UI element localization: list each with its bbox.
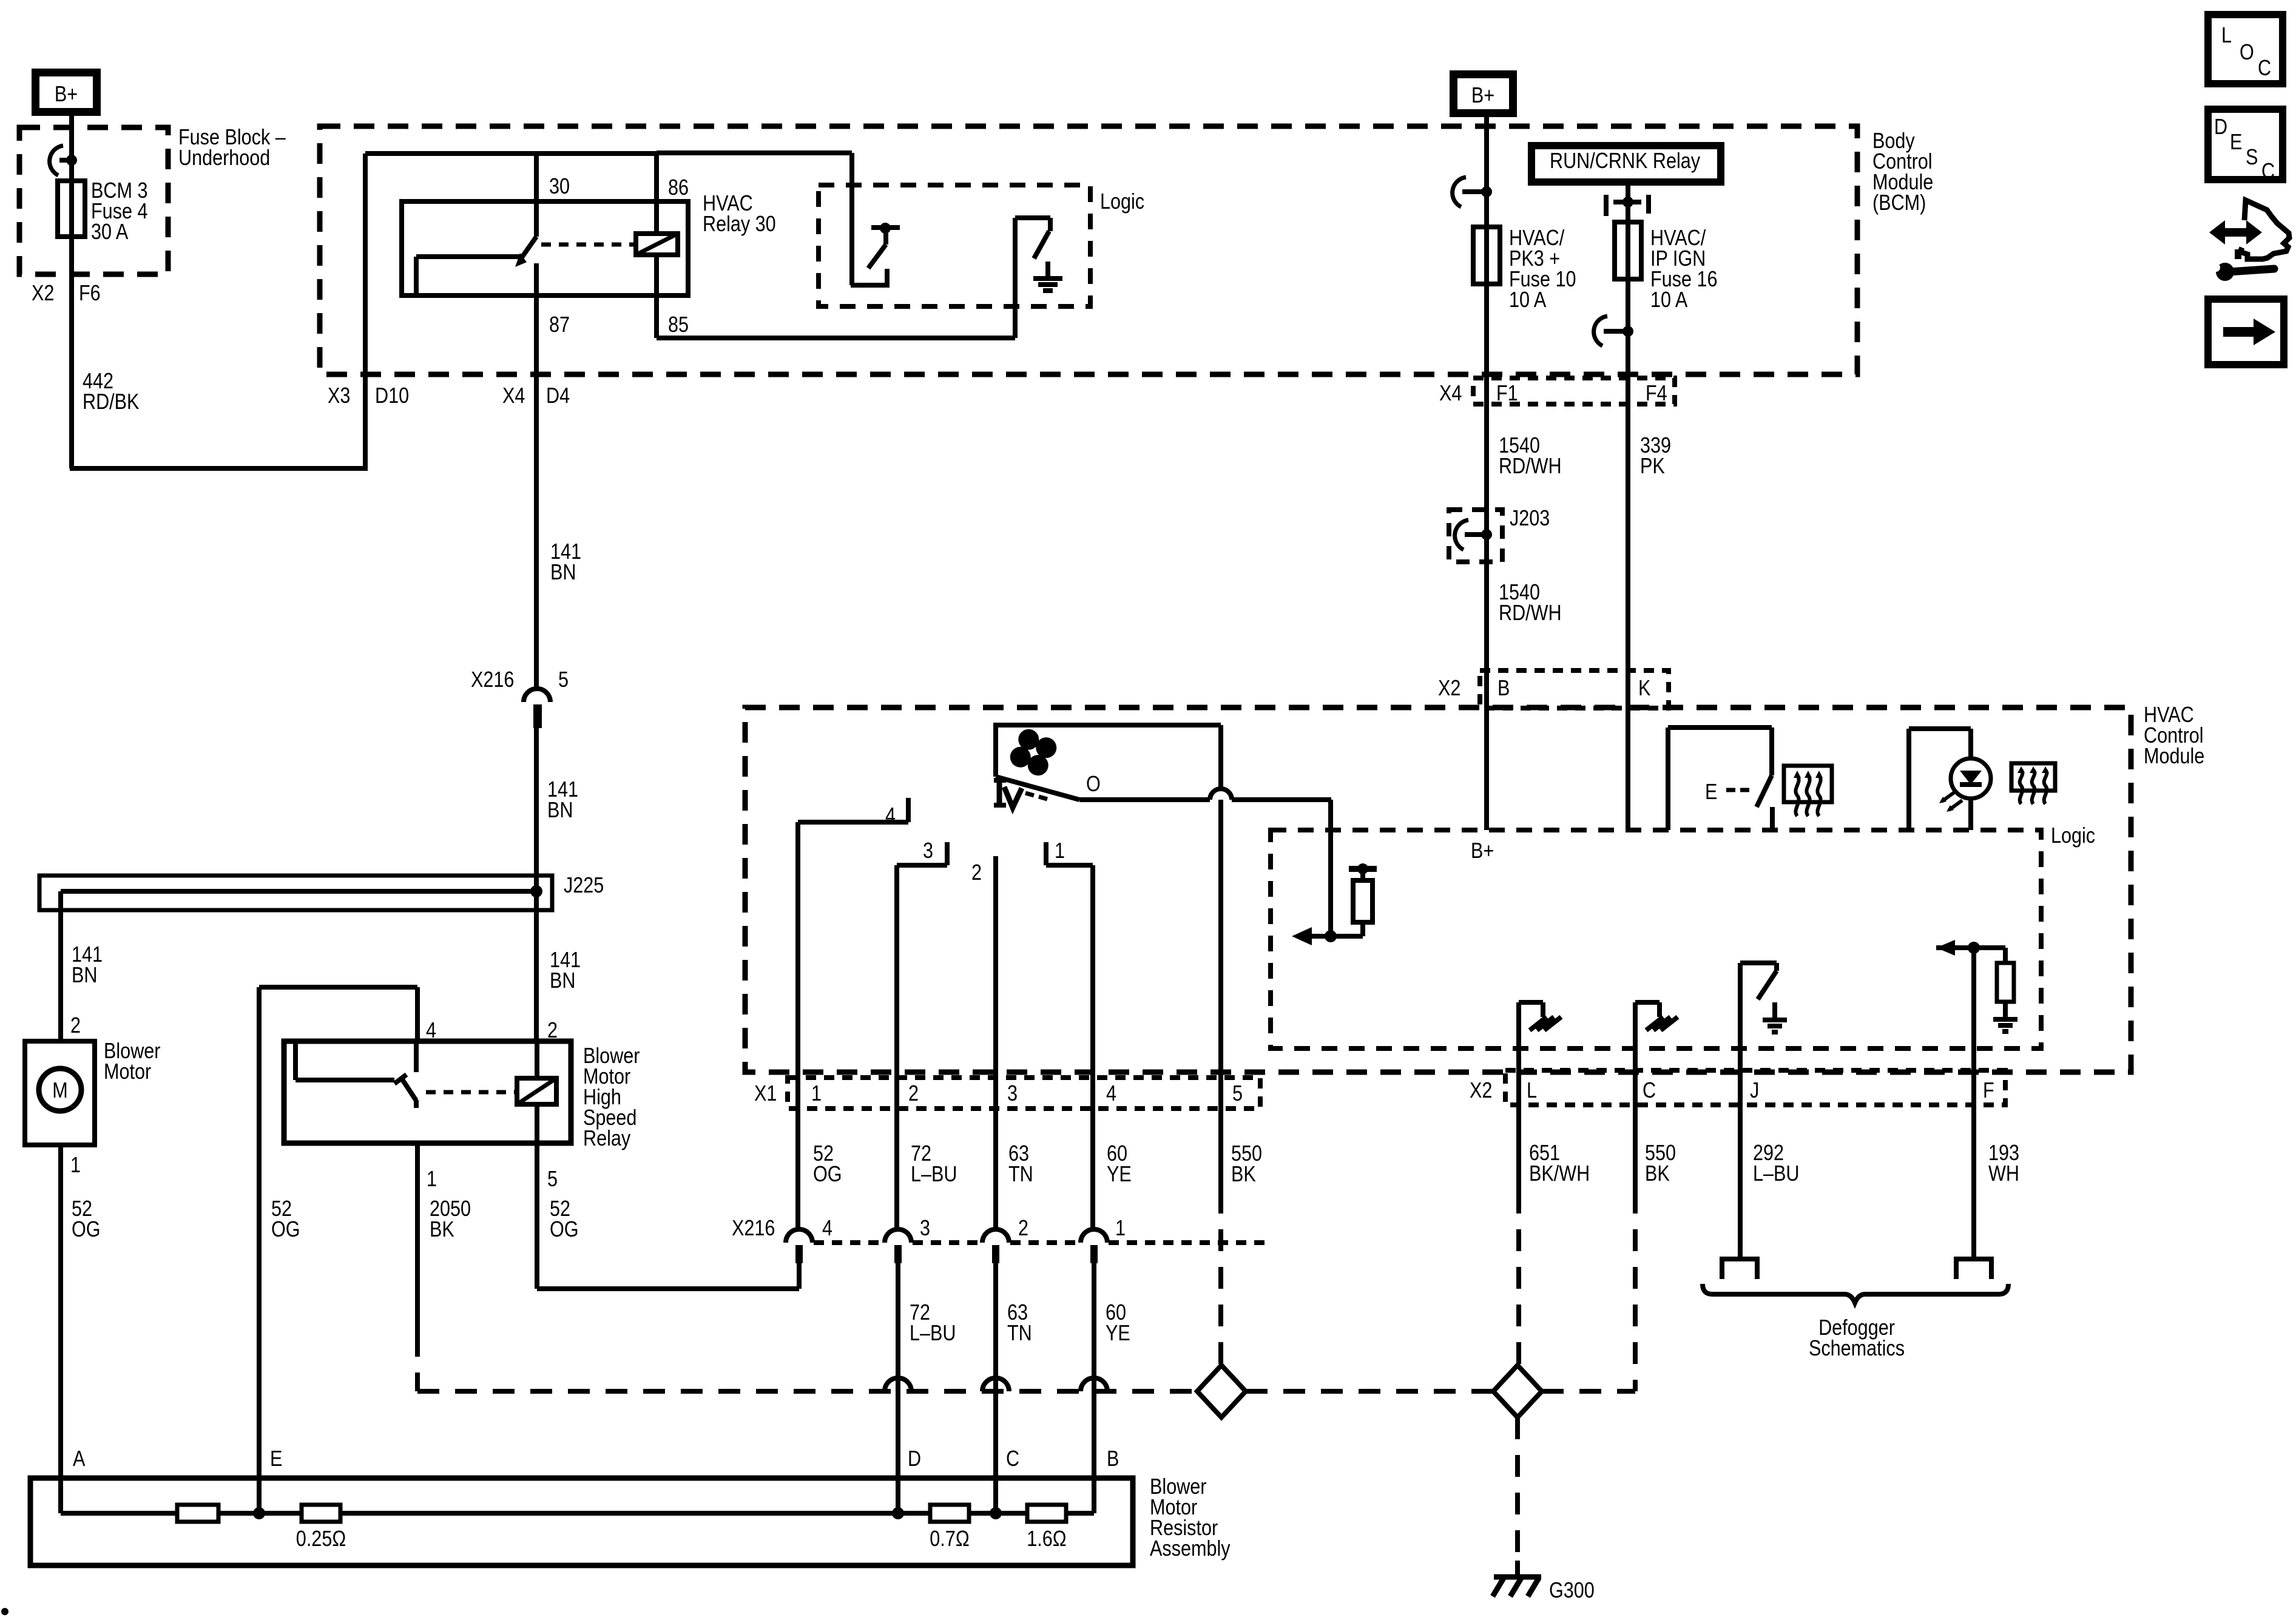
svg-text:RD/BK: RD/BK bbox=[83, 390, 139, 414]
arrow to logic bbox=[1309, 934, 1363, 939]
fan switch wiper pointer bbox=[997, 780, 1002, 805]
fusible link curl at BCM B+ bbox=[1453, 177, 1466, 207]
svg-text:85: 85 bbox=[668, 313, 689, 337]
diamond splice 2 bbox=[1493, 1365, 1542, 1417]
svg-text:X1: X1 bbox=[754, 1082, 777, 1106]
RUN/CRNK Relay label box bbox=[1528, 142, 1724, 186]
wire 60 YE to resistor B bbox=[1092, 1263, 1096, 1513]
switch position stub 3 bbox=[897, 863, 947, 868]
resistor element 0.25 ohm bbox=[302, 1505, 340, 1522]
svg-text:K: K bbox=[1638, 677, 1650, 701]
hs relay actuator dashed link bbox=[426, 1090, 516, 1095]
relay pin 87 stub bbox=[534, 263, 539, 295]
svg-text:4: 4 bbox=[885, 804, 896, 828]
wire 651 BK/WH bbox=[1516, 1029, 1521, 1192]
tool icon double arrow bbox=[2223, 228, 2249, 237]
power terminal B+ (BCM feed) bbox=[1450, 70, 1517, 117]
svg-text:X2: X2 bbox=[1470, 1079, 1492, 1103]
X216 pin 2 terminal bbox=[982, 1229, 1009, 1243]
svg-text:S: S bbox=[2246, 146, 2258, 170]
hs relay internal contact bbox=[293, 1041, 298, 1080]
junction dot D bbox=[892, 1507, 904, 1519]
svg-text:5: 5 bbox=[1232, 1082, 1243, 1106]
svg-text:4: 4 bbox=[1106, 1082, 1116, 1106]
splice J203 dashed box bbox=[1449, 510, 1502, 562]
svg-text:5: 5 bbox=[547, 1167, 558, 1192]
wire 651 BK/WH dashed bbox=[1516, 1192, 1521, 1367]
wire 550 BK (C) bbox=[1633, 1029, 1638, 1192]
svg-text:3: 3 bbox=[1007, 1082, 1018, 1106]
svg-text:87: 87 bbox=[549, 313, 570, 337]
logic switch for relay 85 circuit bbox=[1013, 218, 1018, 338]
svg-text:RD/WH: RD/WH bbox=[1499, 601, 1562, 626]
svg-text:E: E bbox=[1705, 780, 1717, 805]
svg-text:30 A: 30 A bbox=[91, 220, 129, 245]
svg-text:L: L bbox=[2221, 24, 2232, 48]
svg-text:X2: X2 bbox=[32, 282, 54, 306]
wire B+ to fuse BCM3 bbox=[69, 116, 74, 468]
svg-text:D10: D10 bbox=[375, 384, 409, 408]
fan switch wiper output with hop bbox=[1210, 789, 1232, 800]
Fuse Block - Underhood dashed box bbox=[19, 127, 168, 274]
heater icon 1 bbox=[1784, 766, 1832, 802]
fuse HVAC/IP IGN Fuse 16 10A bbox=[1615, 222, 1641, 279]
svg-text:B+: B+ bbox=[55, 83, 78, 107]
tool icon wrench bbox=[2216, 263, 2234, 281]
wire 72 L-BU to resistor D bbox=[896, 1263, 900, 1513]
HVAC relay contact box bbox=[402, 201, 688, 295]
blower fan switch box bbox=[996, 725, 1221, 777]
wire X1-1 bbox=[795, 822, 800, 1080]
connector X2 (bottom) dashed box bbox=[1505, 1070, 2005, 1105]
svg-text:L–BU: L–BU bbox=[910, 1322, 956, 1346]
ground symbol in BCM logic bbox=[1045, 262, 1050, 279]
wire 2050 BK dashed bbox=[415, 1335, 420, 1391]
svg-text:B+: B+ bbox=[1471, 84, 1494, 108]
resistor element 1.6 ohm bbox=[1027, 1505, 1066, 1522]
fusible link curl below fuse 16 bbox=[1594, 316, 1607, 346]
svg-text:BN: BN bbox=[550, 969, 575, 993]
relay pin 30 wire bbox=[534, 154, 539, 237]
svg-text:30: 30 bbox=[549, 175, 570, 199]
svg-text:RUN/CRNK Relay: RUN/CRNK Relay bbox=[1550, 149, 1700, 174]
svg-text:G300: G300 bbox=[1549, 1579, 1595, 1603]
svg-text:Logic: Logic bbox=[1100, 190, 1144, 214]
svg-text:C: C bbox=[2261, 160, 2275, 184]
wire up to BCM pin D10 bbox=[363, 154, 368, 471]
bus hop over 72 wire bbox=[885, 1378, 911, 1391]
svg-text:O: O bbox=[2240, 41, 2254, 65]
connector X4 dashed box bbox=[1473, 378, 1675, 404]
connector X2 (HVAC) dashed box bbox=[1480, 670, 1669, 708]
svg-text:2: 2 bbox=[70, 1014, 81, 1038]
wire 52 OG relay pin 4 loop bbox=[415, 987, 420, 1041]
X216 pin 1 terminal bbox=[1081, 1229, 1107, 1243]
logic switch for relay 86 circuit bbox=[851, 269, 887, 285]
svg-text:BN: BN bbox=[550, 561, 576, 585]
wire 52 OG motor pin 1 bbox=[58, 1145, 63, 1513]
relay pin85 bottom wire bbox=[657, 336, 1015, 340]
svg-text:2: 2 bbox=[908, 1082, 919, 1106]
svg-text:Logic: Logic bbox=[2051, 824, 2095, 848]
svg-text:B: B bbox=[1497, 677, 1510, 701]
svg-text:BK/WH: BK/WH bbox=[1529, 1162, 1590, 1186]
svg-text:1: 1 bbox=[1115, 1217, 1126, 1241]
junction dot J225 bbox=[530, 885, 542, 897]
svg-text:E: E bbox=[2230, 130, 2242, 155]
wire X1-5 / fan box right edge bbox=[1218, 725, 1223, 1080]
blower motor high speed relay box bbox=[284, 1041, 571, 1143]
svg-text:BN: BN bbox=[72, 964, 97, 988]
resistor element 0.7 ohm bbox=[930, 1505, 969, 1522]
pull-up resistor to B+ bbox=[1360, 922, 1365, 936]
svg-text:Relay: Relay bbox=[583, 1127, 630, 1151]
wire 292 L-BU bbox=[1738, 1070, 1743, 1259]
svg-text:OG: OG bbox=[550, 1218, 579, 1242]
svg-text:D4: D4 bbox=[546, 384, 570, 408]
blower motor bbox=[25, 1041, 95, 1145]
wire X216-4 jog to relay pin 5 bbox=[797, 1263, 802, 1289]
wire F down bbox=[1971, 948, 1976, 1070]
svg-text:OG: OG bbox=[271, 1218, 300, 1242]
junction bracket above fuse 16 bbox=[1604, 195, 1609, 216]
svg-text:5: 5 bbox=[558, 668, 569, 692]
connector X1 dashed box bbox=[788, 1078, 1260, 1109]
junction dot C bbox=[990, 1507, 1002, 1519]
svg-text:TN: TN bbox=[1008, 1163, 1033, 1187]
LED arrows bbox=[1942, 792, 1955, 802]
L pin ground bbox=[1516, 1002, 1521, 1070]
svg-text:10 A: 10 A bbox=[1650, 288, 1688, 312]
svg-text:L–BU: L–BU bbox=[911, 1163, 957, 1187]
svg-text:RD/WH: RD/WH bbox=[1499, 454, 1562, 479]
svg-text:Module: Module bbox=[2144, 744, 2204, 769]
relay pin 87 wire down bbox=[534, 295, 539, 689]
svg-text:A: A bbox=[73, 1447, 86, 1471]
svg-text:E: E bbox=[270, 1447, 282, 1471]
splice J225 box bbox=[39, 876, 552, 910]
fuse HVAC/PK3+ Fuse 10 10A bbox=[1473, 227, 1500, 284]
relay fixed contact bbox=[416, 254, 523, 259]
svg-text:X2: X2 bbox=[1438, 677, 1460, 701]
switch position stub 2 bbox=[993, 856, 998, 1080]
svg-text:86: 86 bbox=[668, 176, 689, 200]
J203 curl symbol bbox=[1455, 520, 1468, 550]
fusible link curl at B+ feed bbox=[50, 146, 63, 175]
svg-text:Assembly: Assembly bbox=[1150, 1537, 1231, 1561]
bus hop over 63 wire bbox=[982, 1378, 1009, 1391]
svg-text:3: 3 bbox=[920, 1217, 930, 1241]
wire 141 BN J225 to blower motor bbox=[58, 891, 63, 1041]
wire 141 BN J225 to relay pin 2 bbox=[534, 891, 539, 1041]
relay switch blade bbox=[521, 237, 536, 259]
svg-text:0.7Ω: 0.7Ω bbox=[930, 1527, 969, 1551]
power terminal B+ (fuse block feed) bbox=[32, 69, 101, 116]
svg-text:F4: F4 bbox=[1646, 382, 1667, 406]
svg-text:2: 2 bbox=[1018, 1217, 1028, 1241]
wire 2050 BK relay pin 1 bbox=[415, 1143, 420, 1335]
BCM logic dashed box bbox=[819, 185, 1090, 306]
logic dashed box in HVAC CM bbox=[1271, 830, 2041, 1048]
svg-text:D: D bbox=[908, 1447, 921, 1471]
svg-text:Underhood: Underhood bbox=[178, 146, 270, 170]
wire X1-3 bbox=[993, 1080, 998, 1230]
svg-text:B: B bbox=[1107, 1447, 1119, 1471]
svg-text:M: M bbox=[52, 1079, 67, 1103]
svg-text:BN: BN bbox=[547, 798, 573, 823]
svg-text:C: C bbox=[1006, 1447, 1019, 1471]
J pin switch to ground bbox=[1738, 963, 1743, 1070]
junction dot below B+ bbox=[66, 155, 77, 166]
svg-text:X4: X4 bbox=[502, 384, 525, 408]
svg-text:1: 1 bbox=[1055, 839, 1065, 863]
X216 pin 5 terminal bbox=[524, 689, 550, 702]
stray mark bottom left bbox=[1, 1608, 8, 1615]
ground G300 bbox=[1515, 1561, 1520, 1577]
arrow icon box bbox=[2208, 299, 2284, 365]
LOC icon box bbox=[2208, 15, 2283, 84]
svg-text:C: C bbox=[2258, 56, 2271, 81]
svg-text:4: 4 bbox=[426, 1019, 436, 1043]
connector X216 dashed line bbox=[814, 1240, 883, 1245]
arrow icon arrow bbox=[2223, 327, 2256, 337]
defogger brace bbox=[1703, 1284, 2008, 1303]
svg-text:Motor: Motor bbox=[104, 1060, 151, 1084]
svg-text:2: 2 bbox=[971, 861, 982, 885]
diamond splice 1 bbox=[1197, 1365, 1246, 1417]
resistor element 1 bbox=[177, 1505, 218, 1522]
tool icon connector outline bbox=[2240, 200, 2289, 259]
wire 141 BN (pin87 to J225) bbox=[534, 728, 539, 891]
svg-text:TN: TN bbox=[1007, 1322, 1032, 1346]
wires X1 to X216 bbox=[795, 1080, 800, 1230]
E switch (recirc) bbox=[1666, 727, 1670, 830]
svg-text:X216: X216 bbox=[732, 1217, 775, 1241]
wiper sense wire down to resistor node bbox=[1328, 800, 1333, 936]
svg-text:YE: YE bbox=[1106, 1322, 1130, 1346]
wire B+ to fuse 10 bbox=[1484, 117, 1489, 830]
wire 63 TN to resistor C bbox=[993, 1263, 998, 1513]
LED indicator circuit bbox=[1906, 729, 1911, 830]
svg-text:J203: J203 bbox=[1510, 507, 1550, 531]
svg-text:D: D bbox=[2214, 115, 2227, 140]
relay coil bbox=[636, 234, 678, 255]
svg-text:1: 1 bbox=[70, 1153, 81, 1178]
svg-text:4: 4 bbox=[822, 1217, 832, 1241]
fan icon bbox=[1007, 726, 1060, 779]
svg-text:OG: OG bbox=[72, 1218, 101, 1242]
wire X1-4 bbox=[1090, 865, 1095, 1080]
svg-text:L: L bbox=[1527, 1079, 1537, 1103]
relay outer box bbox=[657, 150, 852, 155]
defogger terminal J bbox=[1720, 1257, 1760, 1261]
Body Control Module dashed box bbox=[320, 126, 1857, 374]
F pin sense with pull resistor bbox=[1936, 945, 2005, 950]
wire feed to HVAC relay bbox=[365, 151, 657, 156]
heater icon 2 (defrost) bbox=[2011, 763, 2055, 791]
svg-text:PK: PK bbox=[1640, 454, 1665, 479]
svg-text:1: 1 bbox=[811, 1082, 822, 1106]
svg-text:3: 3 bbox=[923, 839, 933, 863]
svg-text:WH: WH bbox=[1988, 1162, 2019, 1186]
svg-text:BK: BK bbox=[430, 1218, 454, 1242]
svg-text:J225: J225 bbox=[564, 874, 604, 898]
DESC icon box bbox=[2208, 109, 2283, 180]
switch position stub 1 bbox=[1044, 842, 1048, 865]
fuse BCM 3 Fuse 4 30 A bbox=[58, 181, 85, 237]
svg-text:YE: YE bbox=[1107, 1163, 1132, 1187]
wire 442 RD/BK horizontal run bbox=[70, 466, 365, 471]
svg-text:J: J bbox=[1750, 1079, 1759, 1103]
svg-text:(BCM): (BCM) bbox=[1872, 191, 1926, 215]
svg-text:BK: BK bbox=[1645, 1162, 1670, 1186]
svg-text:Schematics: Schematics bbox=[1809, 1337, 1905, 1361]
wire 550 BK dashed to diamond bbox=[1218, 1192, 1223, 1367]
svg-text:OG: OG bbox=[813, 1163, 842, 1187]
svg-text:1: 1 bbox=[427, 1167, 437, 1192]
svg-text:10 A: 10 A bbox=[1509, 288, 1547, 312]
X216 pin 3 terminal bbox=[885, 1229, 911, 1243]
J225 internal bus bbox=[61, 889, 536, 894]
svg-text:Relay 30: Relay 30 bbox=[703, 212, 776, 237]
defogger terminal F bbox=[1954, 1257, 1994, 1261]
wire 193 WH bbox=[1971, 1070, 1976, 1259]
resistor bus bbox=[61, 1511, 1094, 1516]
svg-text:F1: F1 bbox=[1496, 382, 1518, 406]
hs relay coil bbox=[517, 1078, 556, 1104]
bus hop over 60 wire bbox=[1081, 1378, 1107, 1391]
blower motor resistor assembly box bbox=[30, 1478, 1133, 1565]
svg-text:2: 2 bbox=[547, 1019, 558, 1043]
svg-text:F: F bbox=[1983, 1079, 1994, 1103]
wire to G300 dashed bbox=[1515, 1417, 1520, 1556]
C pin ground bbox=[1633, 1002, 1638, 1070]
dashed ground bus bbox=[417, 1389, 1197, 1394]
svg-text:X216: X216 bbox=[471, 668, 514, 692]
svg-text:1.6Ω: 1.6Ω bbox=[1027, 1527, 1066, 1551]
svg-text:0.25Ω: 0.25Ω bbox=[296, 1527, 346, 1551]
HVAC Control Module dashed box bbox=[745, 707, 2131, 1072]
wire X1-2 bbox=[894, 865, 899, 1080]
svg-text:O: O bbox=[1086, 772, 1101, 797]
switch position stub 4 bbox=[798, 820, 908, 825]
svg-text:F6: F6 bbox=[79, 282, 101, 306]
svg-text:C: C bbox=[1643, 1079, 1656, 1103]
svg-text:B+: B+ bbox=[1471, 839, 1494, 863]
X216 pin 4 terminal bbox=[786, 1229, 812, 1243]
wire 52 OG relay pin 5 bbox=[535, 1143, 539, 1289]
junction dot E bbox=[253, 1507, 265, 1519]
relay actuator dashed link bbox=[541, 243, 635, 247]
svg-text:X4: X4 bbox=[1439, 382, 1462, 406]
svg-text:X3: X3 bbox=[328, 384, 350, 408]
wire RUN/CRNK to fuse 16 bbox=[1626, 186, 1630, 830]
svg-text:L–BU: L–BU bbox=[1753, 1162, 1800, 1186]
wire 550 BK (C) dashed bbox=[1633, 1192, 1638, 1391]
junction dot bbox=[1481, 186, 1492, 197]
svg-text:BK: BK bbox=[1231, 1163, 1256, 1187]
